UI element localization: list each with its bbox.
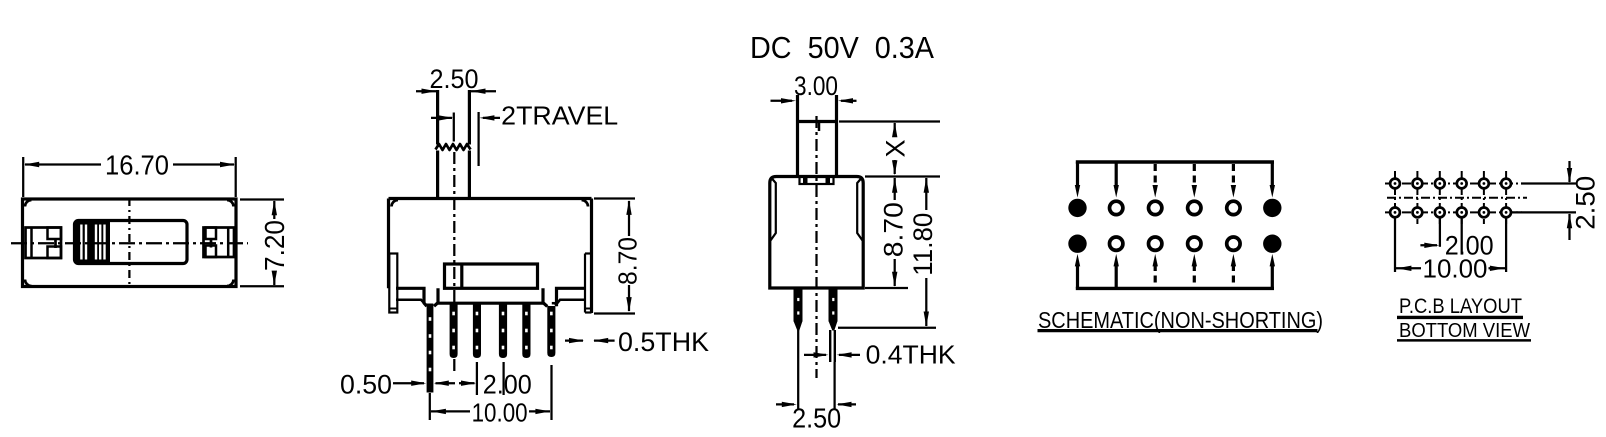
- dim 10.00 front: [429, 393, 431, 420]
- dim 16.70 extension lines: [22, 157, 24, 197]
- schematic column 6 top lead: [1271, 162, 1274, 187]
- svg-text:2TRAVEL: 2TRAVEL: [501, 100, 618, 130]
- terminal pin 4 front: [499, 303, 507, 358]
- dim X: [839, 120, 940, 122]
- pin right lower extension: [833, 362, 835, 410]
- schematic contact row2 col1: [1068, 235, 1086, 253]
- pcb dim 10.00: [1394, 218, 1396, 272]
- pcb pad row2 col6: [1501, 208, 1511, 218]
- terminal pin 1 front: [427, 304, 434, 393]
- pcb pad row1 col1: [1390, 179, 1400, 189]
- pcb pad row2 col3: [1435, 208, 1445, 218]
- schematic contact row1 col5: [1227, 201, 1240, 214]
- pin left extension: [797, 330, 799, 410]
- side bracket right: [857, 178, 862, 241]
- pcb row1 centerline: [1385, 183, 1530, 185]
- right mounting bracket front: [584, 254, 586, 313]
- corner relief arc front top-right: [582, 200, 589, 207]
- svg-text:DC 50V 0.3A: DC 50V 0.3A: [750, 30, 934, 65]
- right contact terminal: [204, 228, 235, 258]
- contact platform inside body: [445, 264, 538, 288]
- svg-text:11.80: 11.80: [908, 213, 938, 276]
- slider knob top view: [75, 221, 188, 264]
- knob mold line: [818, 122, 821, 132]
- schematic contact row1 col3: [1149, 201, 1162, 214]
- schematic label underline: [1038, 329, 1318, 332]
- bottom profile right arm: [557, 288, 586, 306]
- vertical centerline: [128, 198, 130, 288]
- svg-text:8.70: 8.70: [879, 202, 909, 257]
- side body outline: [770, 177, 863, 289]
- schematic column 3 bottom lead: [1154, 264, 1157, 288]
- knob lever (broken): [436, 90, 439, 145]
- svg-text:10.00: 10.00: [472, 398, 528, 428]
- dim 2.50 side: [776, 403, 794, 405]
- schematic contact row2 col6: [1263, 235, 1281, 253]
- terminal pin 6 front: [547, 306, 555, 357]
- dim 2.00 front: [459, 382, 475, 384]
- svg-text:2.50: 2.50: [1571, 176, 1601, 230]
- pcb pad row2 col2: [1413, 208, 1423, 218]
- svg-text:2.00: 2.00: [483, 370, 532, 400]
- schematic contact row1 col2: [1110, 201, 1123, 214]
- svg-text:2.50: 2.50: [430, 64, 479, 94]
- svg-text:8.70: 8.70: [612, 237, 642, 285]
- pcb col5 centerline: [1483, 171, 1485, 224]
- grip slot 3: [95, 225, 97, 260]
- dim 8.70 side: [865, 175, 940, 177]
- grip slot 5: [103, 225, 105, 260]
- schematic column 6 bottom lead: [1271, 264, 1274, 288]
- schematic column 1 bottom lead: [1076, 264, 1079, 288]
- terminal pin 3 front: [473, 303, 481, 358]
- dim 3.00: [771, 100, 793, 102]
- svg-text:10.00: 10.00: [1423, 254, 1488, 284]
- left bracket tick: [390, 308, 397, 310]
- knob base flange: [800, 177, 834, 185]
- side pin right: [829, 288, 838, 322]
- grip slot 4: [99, 225, 101, 260]
- svg-text:0.4THK: 0.4THK: [866, 339, 957, 369]
- dim 16.70 line: [25, 163, 101, 165]
- dim 7.20 extension lines: [240, 198, 284, 200]
- pcb pad row2 col5: [1479, 208, 1489, 218]
- pcb pad row1 col5: [1479, 179, 1489, 189]
- pcb pad row1 col2: [1413, 179, 1423, 189]
- pcb row2 centerline: [1385, 211, 1522, 213]
- svg-text:7.20: 7.20: [259, 220, 290, 271]
- dim 11.80: [838, 327, 936, 329]
- break zigzag: [436, 144, 471, 150]
- schematic column 5 top lead: [1232, 164, 1235, 187]
- dim 0.5THK: [565, 339, 583, 341]
- knob side: [796, 95, 799, 177]
- corner relief arc front top-left: [392, 200, 399, 207]
- schematic column 3 top lead: [1154, 164, 1157, 187]
- svg-text:16.70: 16.70: [105, 150, 169, 181]
- right bracket tick: [586, 308, 592, 310]
- pcb dim 2.00: [1439, 218, 1441, 247]
- corner relief arc top-right: [227, 200, 234, 207]
- bottom profile left arm: [396, 288, 427, 306]
- grip slot 2: [85, 225, 87, 260]
- pcb pad row1 col6: [1501, 179, 1511, 189]
- corner relief arc top-left: [25, 200, 32, 207]
- side pin left: [794, 288, 803, 322]
- pin right thickness line A: [829, 330, 831, 362]
- dim 7.20 line: [273, 201, 275, 219]
- schematic contact row1 col4: [1188, 201, 1201, 214]
- knob serrated grip (filled): [76, 222, 111, 263]
- schematic column 2 top lead: [1115, 162, 1118, 187]
- pcb col4 centerline: [1461, 171, 1463, 224]
- grip slot 1: [80, 225, 82, 260]
- pcb pad row2 col4: [1457, 208, 1467, 218]
- dim 8.70 front: [594, 197, 635, 199]
- dim 2.50 knob width: [416, 90, 436, 92]
- pcb col3 centerline: [1439, 171, 1441, 224]
- front centerline: [453, 152, 455, 372]
- svg-text:2.50: 2.50: [792, 403, 841, 434]
- svg-text:X: X: [880, 139, 910, 157]
- svg-text:P.C.B LAYOUT: P.C.B LAYOUT: [1399, 294, 1522, 318]
- schematic contact row2 col4: [1188, 237, 1201, 250]
- side bracket left: [771, 178, 776, 241]
- pcb label underline 1: [1397, 316, 1523, 319]
- svg-text:0.5THK: 0.5THK: [618, 327, 709, 357]
- schematic column 1 top lead: [1076, 162, 1079, 187]
- pcb col2 centerline: [1416, 171, 1418, 224]
- pcb middle centerline: [1387, 197, 1527, 199]
- front body outline: [389, 197, 592, 200]
- horizontal centerline: [11, 242, 248, 244]
- schematic column 4 bottom lead: [1193, 264, 1196, 288]
- pcb pad row1 col4: [1457, 179, 1467, 189]
- schematic contact row2 col5: [1227, 237, 1240, 250]
- svg-text:0.50: 0.50: [340, 370, 392, 400]
- dim 2TRAVEL: [453, 113, 455, 142]
- left contact terminal: [26, 228, 62, 259]
- pcb col1 centerline: [1394, 171, 1396, 224]
- schematic column 5 bottom lead: [1232, 264, 1235, 288]
- svg-text:BOTTOM VIEW: BOTTOM VIEW: [1399, 319, 1531, 342]
- left mounting bracket front: [389, 254, 397, 313]
- switch body top view outline: [23, 199, 237, 287]
- schematic bottom rail: [1076, 287, 1274, 290]
- schematic top rail: [1076, 160, 1274, 163]
- schematic column 4 top lead: [1193, 164, 1196, 187]
- schematic contact row2 col3: [1149, 237, 1162, 250]
- terminal pin 2 front: [450, 303, 458, 358]
- side centerline: [815, 116, 817, 378]
- pcb dim 2.50: [1521, 182, 1576, 184]
- schematic column 2 bottom lead: [1115, 264, 1118, 288]
- schematic contact row1 col1: [1068, 199, 1086, 217]
- corner relief arc bottom-left: [25, 280, 32, 287]
- base slab: [434, 288, 438, 306]
- schematic contact row1 col6: [1263, 199, 1281, 217]
- pcb pad row1 col3: [1435, 179, 1445, 189]
- dim 0.4THK: [804, 354, 826, 356]
- pcb label underline 2: [1397, 339, 1531, 342]
- svg-text:3.00: 3.00: [794, 71, 838, 101]
- terminal pin 5 front: [522, 303, 530, 358]
- pin right thickness line B: [834, 330, 836, 362]
- schematic contact row2 col2: [1110, 237, 1123, 250]
- pcb col6 centerline: [1505, 171, 1507, 224]
- corner relief arc bottom-right: [227, 280, 234, 287]
- pcb pad row2 col1: [1390, 208, 1400, 218]
